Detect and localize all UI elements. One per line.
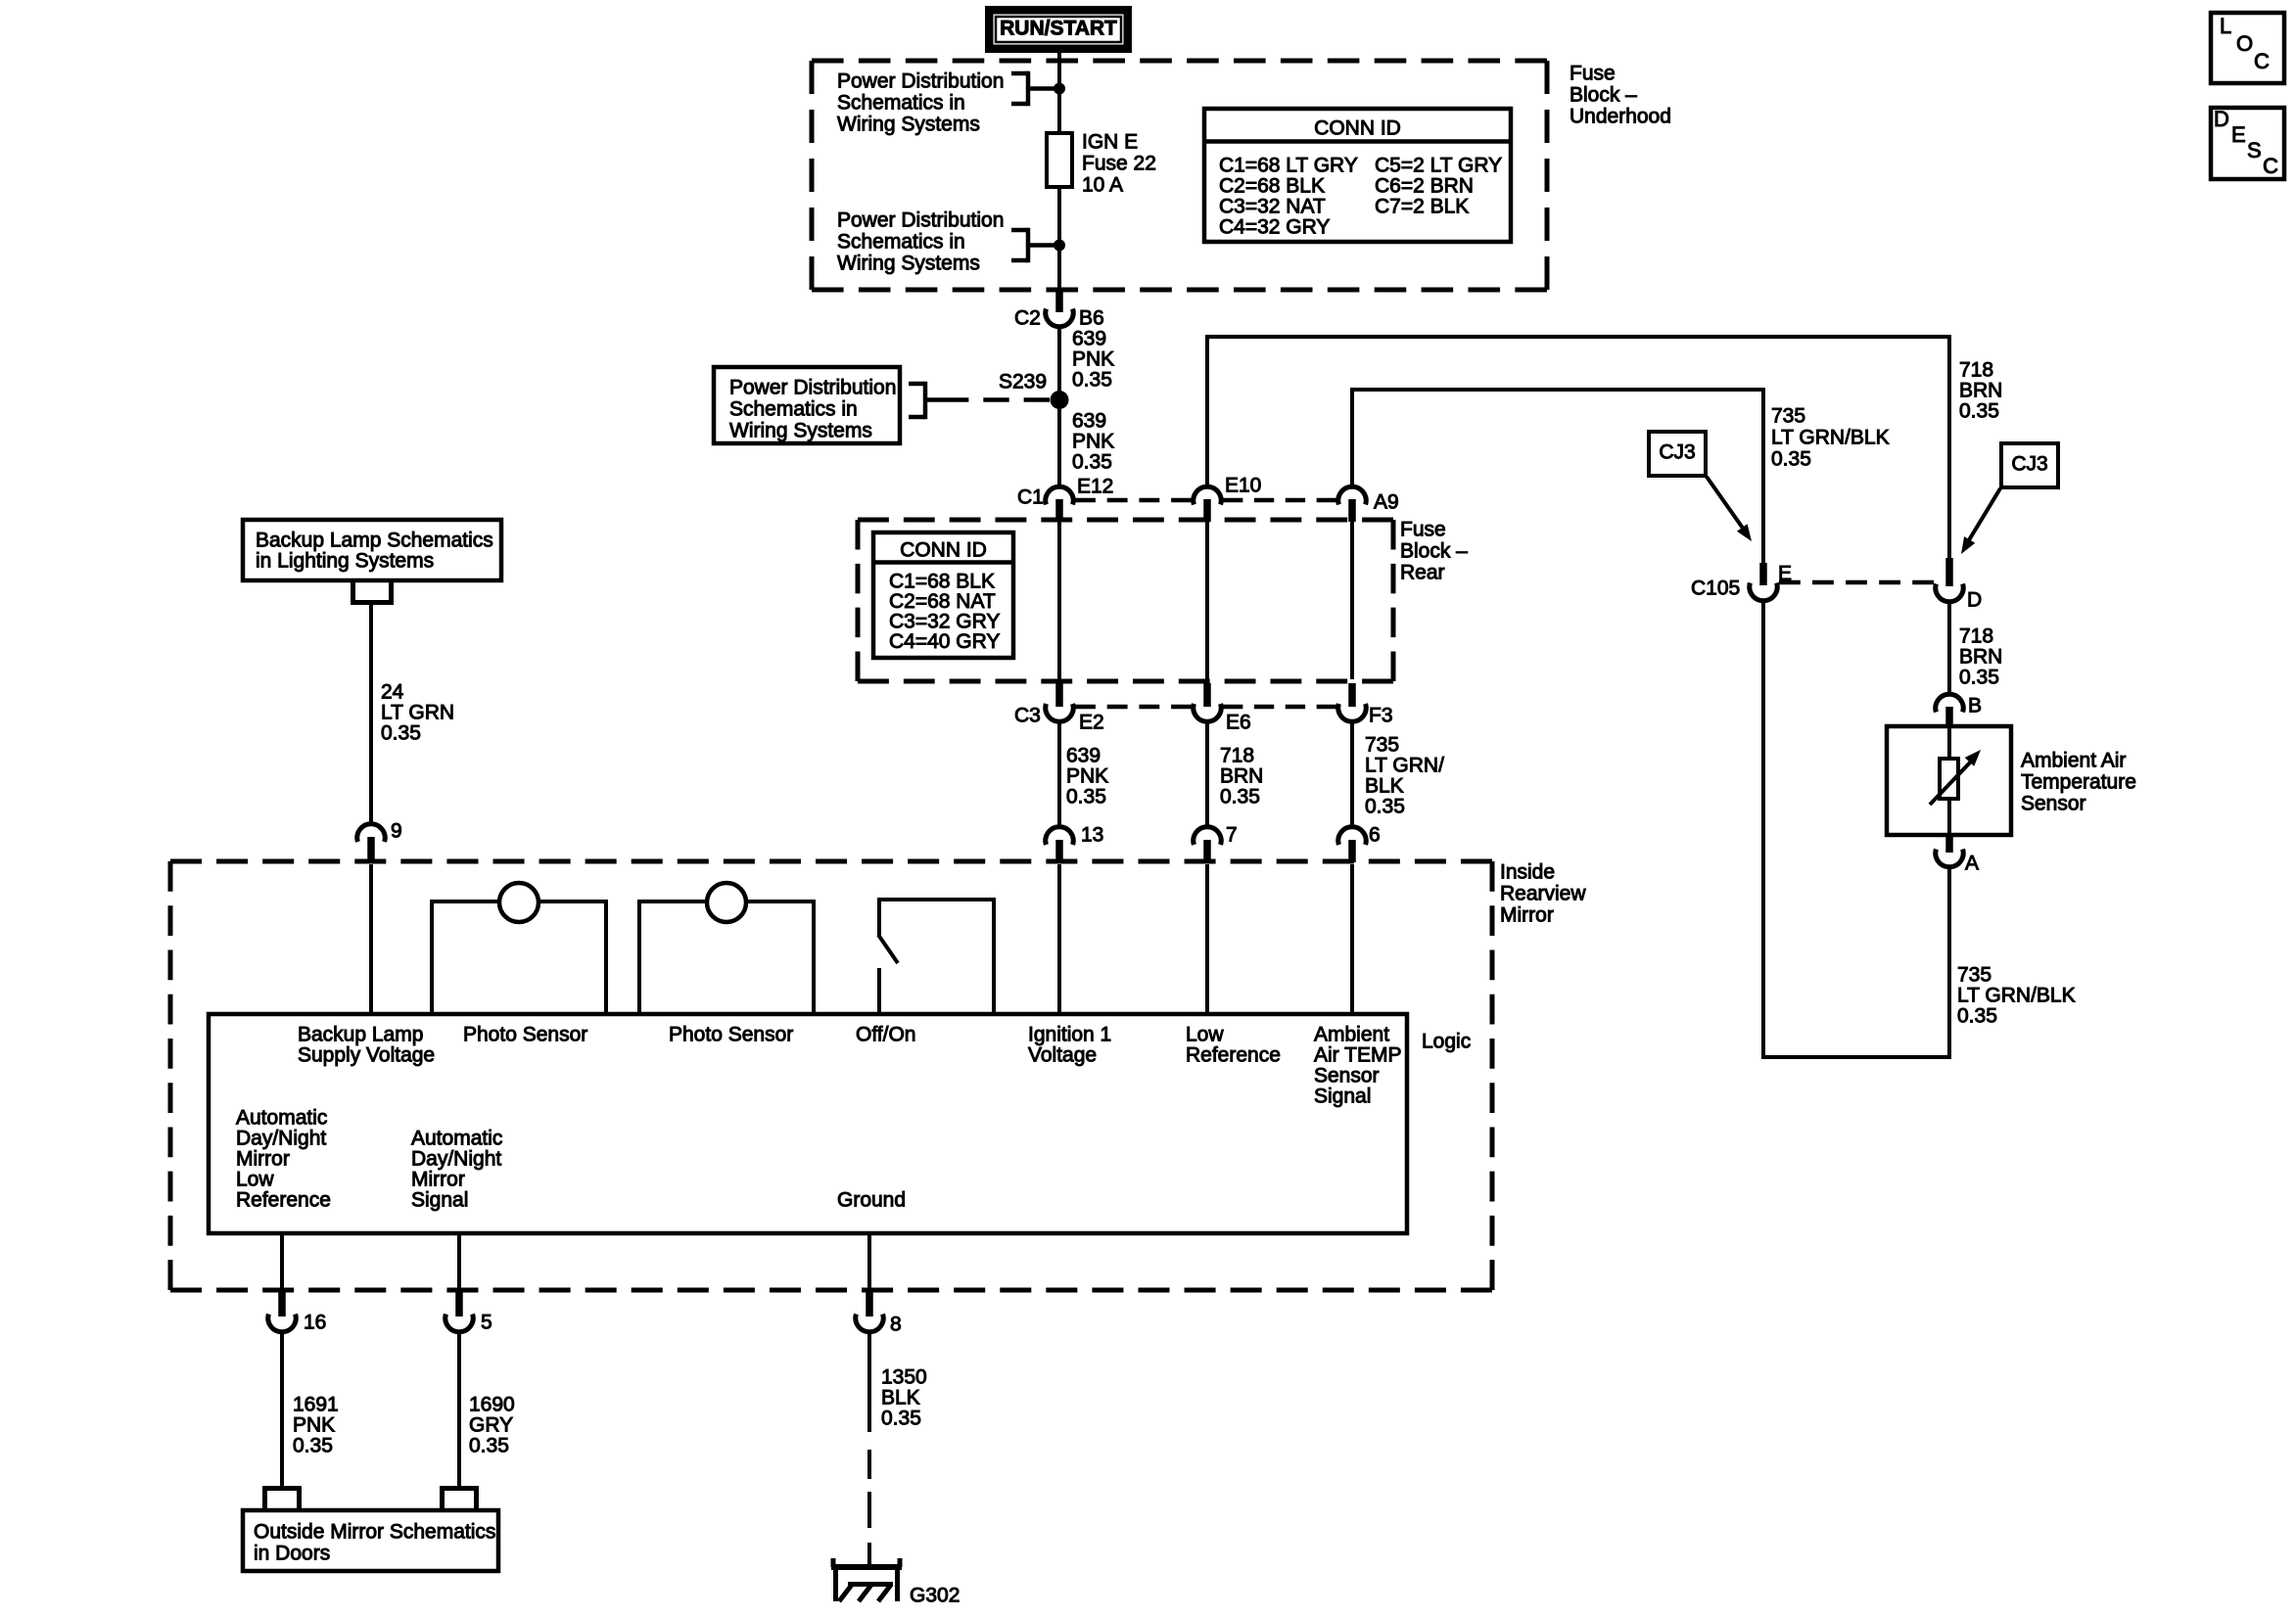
svg-text:Reference: Reference xyxy=(236,1188,331,1211)
svg-text:Backup Lamp: Backup Lamp xyxy=(298,1023,423,1045)
svg-text:1350: 1350 xyxy=(881,1365,927,1388)
label 735 LT GRN/BLK 0.35 lower right xyxy=(1957,963,2076,1027)
connector pin 13 xyxy=(1046,823,1104,862)
svg-text:RUN/START: RUN/START xyxy=(1000,17,1117,39)
label Backup Lamp Supply Voltage xyxy=(298,1023,435,1066)
ambient air temperature sensor box xyxy=(1887,726,2011,835)
svg-text:9: 9 xyxy=(391,819,402,842)
wire 639 PNK to mirror xyxy=(1057,721,1061,827)
svg-text:13: 13 xyxy=(1081,823,1103,846)
svg-text:BLK: BLK xyxy=(1365,774,1404,797)
svg-text:0.35: 0.35 xyxy=(1365,795,1405,817)
svg-text:IGN E: IGN E xyxy=(1082,130,1138,153)
svg-text:C4=40 GRY: C4=40 GRY xyxy=(889,630,1000,653)
svg-text:BRN: BRN xyxy=(1959,645,2002,668)
svg-text:in Lighting Systems: in Lighting Systems xyxy=(256,549,434,572)
svg-text:Wiring Systems: Wiring Systems xyxy=(729,419,872,441)
svg-text:7: 7 xyxy=(1226,823,1238,846)
svg-text:0.35: 0.35 xyxy=(1959,666,1999,688)
svg-text:Backup Lamp Schematics: Backup Lamp Schematics xyxy=(256,529,493,551)
svg-text:Wiring Systems: Wiring Systems xyxy=(837,252,980,274)
svg-text:718: 718 xyxy=(1959,358,1993,381)
label 639 PNK 0.35 upper xyxy=(1072,327,1114,391)
svg-text:10 A: 10 A xyxy=(1082,173,1123,196)
dashed connector mate line E-D xyxy=(1779,580,1934,585)
photo sensor 1 outline xyxy=(430,883,608,1016)
label Fuse Block - Rear xyxy=(1400,518,1468,583)
svg-text:Ground: Ground xyxy=(837,1188,906,1211)
svg-text:Underhood: Underhood xyxy=(1570,105,1671,127)
svg-text:0.35: 0.35 xyxy=(293,1434,333,1456)
svg-text:Voltage: Voltage xyxy=(1028,1043,1097,1066)
svg-text:Rearview: Rearview xyxy=(1500,882,1586,904)
svg-text:Automatic: Automatic xyxy=(236,1106,327,1129)
svg-text:Block –: Block – xyxy=(1570,83,1637,106)
label Photo Sensor 1 xyxy=(463,1023,587,1045)
svg-text:A: A xyxy=(1965,852,1979,874)
label Logic xyxy=(1422,1030,1471,1052)
wire inside rear block col 3 xyxy=(1350,522,1354,679)
svg-text:C7=2 BLK: C7=2 BLK xyxy=(1375,195,1469,217)
svg-text:A9: A9 xyxy=(1374,490,1399,513)
wire 718 BRN to mirror xyxy=(1205,721,1209,827)
node Power Distribution tap 1 (text) xyxy=(837,69,1004,135)
svg-text:8: 8 xyxy=(890,1313,902,1335)
label 1691 PNK 0.35 xyxy=(293,1393,339,1456)
svg-text:718: 718 xyxy=(1220,744,1254,766)
connector pin 9 xyxy=(357,819,402,862)
bracket below backup lamp box xyxy=(351,582,394,603)
label Off/On xyxy=(856,1023,915,1045)
bracket and junction dot tap 2 xyxy=(1011,228,1065,263)
svg-text:C5=2 LT GRY: C5=2 LT GRY xyxy=(1375,154,1502,176)
label 718 BRN 0.35 upper right xyxy=(1959,358,2002,422)
wire 1350 BLK xyxy=(867,1331,871,1432)
node Outside Mirror Schematics box xyxy=(243,1510,498,1571)
wire 718 BRN horizontal from E10 xyxy=(1205,337,1951,560)
label Ignition 1 Voltage xyxy=(1028,1023,1111,1066)
wire 1690 GRY xyxy=(457,1331,461,1486)
svg-text:Low: Low xyxy=(236,1168,274,1190)
connector pin A xyxy=(1936,835,1979,874)
svg-text:Outside Mirror Schematics: Outside Mirror Schematics xyxy=(254,1520,495,1543)
svg-text:0.35: 0.35 xyxy=(381,721,421,744)
connector C2 pin B6 xyxy=(1014,290,1104,329)
svg-text:C3=32 NAT: C3=32 NAT xyxy=(1219,195,1326,217)
svg-text:Reference: Reference xyxy=(1186,1043,1281,1066)
svg-text:CONN ID: CONN ID xyxy=(900,538,987,561)
svg-text:Low: Low xyxy=(1186,1023,1224,1045)
svg-text:Schematics in: Schematics in xyxy=(837,230,965,253)
label 1690 GRY 0.35 xyxy=(469,1393,515,1456)
svg-text:D: D xyxy=(1967,588,1982,611)
label Fuse Block - Underhood xyxy=(1570,62,1671,127)
svg-text:BRN: BRN xyxy=(1220,764,1263,787)
svg-text:Sensor: Sensor xyxy=(1314,1064,1380,1086)
label 718 BRN 0.35 at sensor xyxy=(1959,624,2002,688)
svg-text:0.35: 0.35 xyxy=(1957,1004,1997,1027)
label Photo Sensor 2 xyxy=(669,1023,793,1045)
switch Off/On xyxy=(878,898,996,1016)
svg-text:Off/On: Off/On xyxy=(856,1023,915,1045)
svg-text:PNK: PNK xyxy=(293,1413,335,1436)
wire 1691 PNK xyxy=(280,1331,284,1486)
bracket S239 dashed link xyxy=(909,382,1050,420)
svg-text:BLK: BLK xyxy=(881,1386,920,1409)
svg-text:C: C xyxy=(2254,49,2270,73)
svg-text:LT GRN/BLK: LT GRN/BLK xyxy=(1771,426,1890,448)
node CJ3 callout right xyxy=(2001,443,2058,487)
svg-text:639: 639 xyxy=(1066,744,1101,766)
svg-text:E12: E12 xyxy=(1077,475,1113,497)
svg-text:C1: C1 xyxy=(1017,485,1044,508)
svg-text:GRY: GRY xyxy=(469,1413,513,1436)
connector pin E10 xyxy=(1194,474,1262,522)
svg-text:G302: G302 xyxy=(910,1584,960,1606)
wire RUN/START to fuse IGN E xyxy=(1057,53,1061,137)
svg-text:C1=68 LT GRY: C1=68 LT GRY xyxy=(1219,154,1358,176)
label 24 LT GRN 0.35 xyxy=(381,680,454,744)
svg-text:Block –: Block – xyxy=(1400,539,1468,562)
label Automatic Day/Night Mirror Signal xyxy=(411,1127,502,1211)
svg-text:0.35: 0.35 xyxy=(1066,785,1106,808)
svg-text:S239: S239 xyxy=(999,370,1047,393)
wire loop bottom xyxy=(1761,1055,1951,1059)
svg-text:PNK: PNK xyxy=(1066,764,1108,787)
dashed connector mate line E12-E10-A9 xyxy=(1075,498,1336,503)
svg-text:C2: C2 xyxy=(1014,306,1041,329)
svg-text:PNK: PNK xyxy=(1072,430,1114,452)
connector pin A9 xyxy=(1338,486,1399,522)
svg-text:Signal: Signal xyxy=(411,1188,468,1211)
svg-text:16: 16 xyxy=(304,1311,326,1333)
label 1350 BLK 0.35 xyxy=(881,1365,927,1429)
svg-text:Temperature: Temperature xyxy=(2021,770,2136,793)
thermistor symbol xyxy=(1930,750,1981,805)
svg-text:E2: E2 xyxy=(1079,711,1104,733)
svg-text:L: L xyxy=(2220,14,2231,38)
svg-text:Sensor: Sensor xyxy=(2021,792,2086,814)
connector pin 5 xyxy=(445,1292,492,1333)
svg-text:Rear: Rear xyxy=(1400,561,1445,583)
table CONN ID underhood xyxy=(1204,109,1511,242)
svg-text:C105: C105 xyxy=(1691,577,1740,599)
svg-text:Day/Night: Day/Night xyxy=(411,1147,501,1170)
svg-text:Ambient Air: Ambient Air xyxy=(2021,749,2126,771)
table CONN ID rear xyxy=(873,532,1013,658)
svg-text:Wiring Systems: Wiring Systems xyxy=(837,113,980,135)
fuse IGN E Fuse 22 10A xyxy=(1047,130,1156,196)
node RUN/START (ignition switch feed) xyxy=(985,6,1132,53)
bracket and junction dot tap 1 xyxy=(1011,71,1065,107)
wire pin 9 into mirror xyxy=(369,864,373,1014)
svg-text:B: B xyxy=(1968,694,1982,716)
wire 718 BRN from D to B xyxy=(1947,601,1951,695)
arrow CJ3 left xyxy=(1707,477,1752,541)
svg-text:735: 735 xyxy=(1957,963,1991,986)
svg-text:D: D xyxy=(2214,107,2229,131)
svg-text:Ambient: Ambient xyxy=(1314,1023,1389,1045)
svg-text:Fuse: Fuse xyxy=(1570,62,1616,84)
svg-text:in Doors: in Doors xyxy=(254,1542,330,1564)
svg-text:24: 24 xyxy=(381,680,404,703)
wire 735 from C105 E down xyxy=(1761,600,1765,1059)
svg-text:Supply Voltage: Supply Voltage xyxy=(298,1043,435,1066)
ground G302 xyxy=(831,1558,960,1606)
svg-text:LT GRN: LT GRN xyxy=(381,701,454,723)
svg-text:Mirror: Mirror xyxy=(236,1147,290,1170)
connector pin 6 xyxy=(1338,823,1381,862)
arrow CJ3 right xyxy=(1961,488,2000,554)
svg-text:Inside: Inside xyxy=(1500,860,1555,883)
wire 639 PNK upper segment xyxy=(1057,326,1061,487)
wire pin 7 into mirror xyxy=(1205,864,1209,1014)
connector pin E6 xyxy=(1194,683,1251,733)
svg-text:Power Distribution: Power Distribution xyxy=(837,208,1004,231)
svg-text:Day/Night: Day/Night xyxy=(236,1127,326,1149)
connector C1 pin E12 xyxy=(1017,475,1113,522)
node Power Distribution mid box xyxy=(714,367,900,443)
svg-text:735: 735 xyxy=(1771,404,1805,427)
svg-text:Power Distribution: Power Distribution xyxy=(837,69,1004,92)
svg-text:Signal: Signal xyxy=(1314,1085,1371,1107)
svg-text:CJ3: CJ3 xyxy=(1659,440,1695,463)
svg-text:PNK: PNK xyxy=(1072,347,1114,370)
wire pin 13 into mirror xyxy=(1057,864,1061,1014)
svg-text:Mirror: Mirror xyxy=(411,1168,465,1190)
svg-text:Logic: Logic xyxy=(1422,1030,1471,1052)
svg-text:0.35: 0.35 xyxy=(1771,447,1811,470)
svg-text:Ignition 1: Ignition 1 xyxy=(1028,1023,1111,1045)
svg-text:718: 718 xyxy=(1959,624,1993,647)
svg-text:Fuse: Fuse xyxy=(1400,518,1446,540)
svg-text:CONN ID: CONN ID xyxy=(1314,116,1401,139)
svg-text:1690: 1690 xyxy=(469,1393,515,1415)
svg-text:639: 639 xyxy=(1072,409,1106,432)
svg-text:LT GRN/BLK: LT GRN/BLK xyxy=(1957,984,2076,1006)
bracket above outside mirror box pin 5 xyxy=(440,1489,479,1511)
svg-text:Mirror: Mirror xyxy=(1500,903,1554,926)
svg-text:CJ3: CJ3 xyxy=(2011,452,2047,475)
connector pin F3 xyxy=(1338,683,1393,726)
node CJ3 callout left xyxy=(1649,432,1706,476)
svg-text:0.35: 0.35 xyxy=(881,1407,921,1429)
svg-text:E: E xyxy=(2231,122,2246,147)
bracket above outside mirror box pin 16 xyxy=(262,1489,302,1511)
svg-text:Photo Sensor: Photo Sensor xyxy=(463,1023,587,1045)
label Automatic Day/Night Mirror Low Reference xyxy=(236,1106,331,1211)
wire inside rear block col 2 xyxy=(1205,522,1209,679)
connector pin B xyxy=(1936,694,1982,726)
wire 1350 BLK dashed segment xyxy=(867,1450,871,1566)
label 639 PNK 0.35 lower xyxy=(1072,409,1114,473)
svg-text:Air TEMP: Air TEMP xyxy=(1314,1043,1401,1066)
svg-text:C6=2 BRN: C6=2 BRN xyxy=(1375,174,1474,197)
svg-text:6: 6 xyxy=(1369,823,1381,846)
svg-text:0.35: 0.35 xyxy=(1959,399,1999,422)
label Low Reference xyxy=(1186,1023,1281,1066)
svg-text:E10: E10 xyxy=(1225,474,1261,496)
dashed connector mate line E2-E6-F3 xyxy=(1075,705,1336,710)
svg-text:F3: F3 xyxy=(1369,704,1393,726)
wire ground lead xyxy=(867,1233,871,1292)
label 735 LT GRN/BLK 0.35 column 3 xyxy=(1365,733,1444,817)
wire pin 6 into mirror xyxy=(1350,864,1354,1014)
svg-text:Power Distribution: Power Distribution xyxy=(729,376,896,398)
marker DESC box xyxy=(2211,107,2284,179)
svg-text:BRN: BRN xyxy=(1959,379,2002,401)
svg-text:C: C xyxy=(2263,154,2278,178)
svg-text:B6: B6 xyxy=(1079,306,1104,329)
connector C3 pin E2 xyxy=(1014,683,1104,733)
node Backup Lamp Schematics box xyxy=(243,520,501,580)
svg-text:0.35: 0.35 xyxy=(1220,785,1260,808)
wire 735 up to sensor A xyxy=(1947,867,1951,1057)
svg-text:5: 5 xyxy=(481,1311,492,1333)
wire 735 to mirror xyxy=(1350,721,1354,827)
connector C105 pin E xyxy=(1691,562,1792,600)
mirror logic box outline xyxy=(209,1014,1407,1233)
sensor internal wire upper xyxy=(1947,726,1951,761)
marker LOC box xyxy=(2211,13,2284,83)
svg-text:Photo Sensor: Photo Sensor xyxy=(669,1023,793,1045)
svg-text:Schematics in: Schematics in xyxy=(729,397,858,420)
wire fuse to C2 xyxy=(1057,187,1061,290)
svg-text:Schematics in: Schematics in xyxy=(837,91,965,114)
label Ambient Air Temperature Sensor xyxy=(2021,749,2136,814)
svg-text:639: 639 xyxy=(1072,327,1106,349)
sensor internal wire lower xyxy=(1947,799,1951,835)
svg-text:1691: 1691 xyxy=(293,1393,339,1415)
svg-text:Automatic: Automatic xyxy=(411,1127,502,1149)
svg-text:E6: E6 xyxy=(1226,711,1251,733)
wire mirror low reference xyxy=(280,1233,284,1292)
connector pin 7 xyxy=(1194,823,1238,862)
connector pin 8 xyxy=(856,1292,902,1335)
label Ground xyxy=(837,1188,906,1211)
svg-text:C2=68 BLK: C2=68 BLK xyxy=(1219,174,1325,197)
inside rearview mirror dashed outline xyxy=(170,861,1492,1290)
node Power Distribution tap 2 (text) xyxy=(837,208,1004,274)
svg-text:0.35: 0.35 xyxy=(1072,450,1112,473)
splice S239 xyxy=(999,370,1069,409)
label 718 BRN 0.35 column 2 xyxy=(1220,744,1263,808)
connector C105 pin D xyxy=(1936,558,1982,611)
svg-text:0.35: 0.35 xyxy=(1072,368,1112,391)
svg-text:O: O xyxy=(2236,31,2253,56)
svg-text:LT GRN/: LT GRN/ xyxy=(1365,754,1444,776)
photo sensor 2 outline xyxy=(637,883,816,1016)
svg-text:0.35: 0.35 xyxy=(469,1434,509,1456)
fuse block rear dashed outline xyxy=(858,520,1393,681)
wire 24 LT GRN xyxy=(369,602,373,824)
label 639 PNK 0.35 column 1 xyxy=(1066,744,1108,808)
label Ambient Air TEMP Sensor Signal xyxy=(1314,1023,1401,1107)
fuse block underhood dashed outline xyxy=(812,61,1547,290)
svg-text:735: 735 xyxy=(1365,733,1399,756)
wire mirror signal xyxy=(457,1233,461,1292)
wire inside rear block col 1 xyxy=(1057,522,1061,679)
svg-text:C3: C3 xyxy=(1014,704,1041,726)
connector pin 16 xyxy=(268,1292,327,1333)
svg-text:C4=32 GRY: C4=32 GRY xyxy=(1219,215,1330,238)
label Inside Rearview Mirror xyxy=(1500,860,1586,926)
svg-text:Fuse 22: Fuse 22 xyxy=(1082,152,1156,174)
wire 735 LT GRN/BLK horizontal from A9 xyxy=(1350,390,1765,565)
label 735 LT GRN/BLK 0.35 upper right xyxy=(1771,404,1890,470)
svg-text:S: S xyxy=(2247,138,2262,162)
